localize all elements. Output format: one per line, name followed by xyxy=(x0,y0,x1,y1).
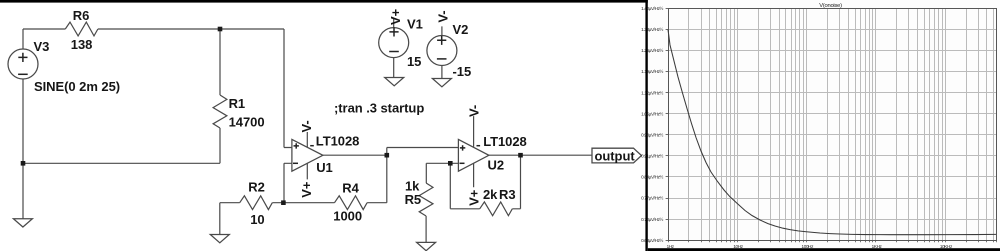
svg-text:1.19µV/Hz½: 1.19µV/Hz½ xyxy=(641,68,663,74)
svg-text:15: 15 xyxy=(407,54,421,69)
svg-text:10Hz: 10Hz xyxy=(733,244,743,249)
svg-text:V+: V+ xyxy=(299,181,314,198)
svg-text:;tran .3 startup: ;tran .3 startup xyxy=(334,100,424,115)
svg-text:1.12µV/Hz½: 1.12µV/Hz½ xyxy=(641,89,663,95)
svg-text:V-: V- xyxy=(435,10,450,22)
svg-text:V1: V1 xyxy=(407,16,423,31)
svg-text:U1: U1 xyxy=(316,160,333,175)
svg-text:SINE(0 2m 25): SINE(0 2m 25) xyxy=(34,79,120,94)
svg-text:138: 138 xyxy=(71,37,93,52)
svg-text:10KHz: 10KHz xyxy=(940,244,953,249)
svg-text:R3: R3 xyxy=(499,187,516,202)
svg-text:R4: R4 xyxy=(342,180,359,195)
svg-text:0.98µV/Hz½: 0.98µV/Hz½ xyxy=(641,132,663,138)
svg-text:V(onoise): V(onoise) xyxy=(819,3,842,9)
svg-text:0.91µV/Hz½: 0.91µV/Hz½ xyxy=(641,153,663,159)
svg-text:R5: R5 xyxy=(405,192,422,207)
svg-text:14700: 14700 xyxy=(229,114,265,129)
svg-text:1KHz: 1KHz xyxy=(872,244,883,249)
svg-text:0.77µV/Hz½: 0.77µV/Hz½ xyxy=(641,195,663,201)
svg-text:V-: V- xyxy=(467,105,482,117)
svg-text:LT1028: LT1028 xyxy=(316,134,360,149)
svg-text:LT1028: LT1028 xyxy=(483,134,527,149)
svg-text:1.33µV/Hz½: 1.33µV/Hz½ xyxy=(641,26,663,32)
svg-text:0.63µV/Hz½: 0.63µV/Hz½ xyxy=(641,237,663,243)
svg-text:R2: R2 xyxy=(248,179,265,194)
svg-text:U2: U2 xyxy=(488,158,505,173)
svg-text:1000: 1000 xyxy=(333,208,362,223)
svg-text:-15: -15 xyxy=(453,64,472,79)
svg-text:10: 10 xyxy=(250,212,264,227)
svg-text:1.26µV/Hz½: 1.26µV/Hz½ xyxy=(641,47,663,53)
svg-text:V2: V2 xyxy=(453,22,469,37)
svg-text:2k: 2k xyxy=(483,187,498,202)
svg-text:V+: V+ xyxy=(388,8,403,25)
svg-text:R6: R6 xyxy=(73,8,90,23)
svg-text:V+: V+ xyxy=(466,189,481,206)
svg-text:0.84µV/Hz½: 0.84µV/Hz½ xyxy=(641,174,663,180)
svg-text:1.05µV/Hz½: 1.05µV/Hz½ xyxy=(641,110,663,116)
svg-text:V3: V3 xyxy=(34,39,50,54)
svg-text:R1: R1 xyxy=(229,96,246,111)
svg-text:1.40µV/Hz½: 1.40µV/Hz½ xyxy=(641,5,663,11)
svg-text:100Hz: 100Hz xyxy=(802,244,815,249)
svg-text:output: output xyxy=(595,148,636,163)
svg-text:1Hz: 1Hz xyxy=(667,244,675,249)
svg-text:V-: V- xyxy=(299,120,314,132)
svg-text:0.70µV/Hz½: 0.70µV/Hz½ xyxy=(641,216,663,222)
